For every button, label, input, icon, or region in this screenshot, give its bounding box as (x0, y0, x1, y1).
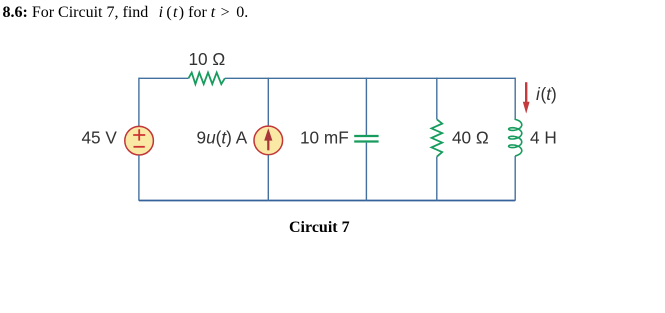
voltage source V1 45V (circle) (125, 126, 154, 155)
current direction arrow i(t) (red, downward) (525, 82, 527, 103)
wire: left vertical lower (voltage source to bottom corner) (138, 155, 140, 201)
minus sign of source (134, 146, 145, 148)
wire: capacitor branch lower (365, 143, 367, 201)
svg-text:10 mF: 10 mF (300, 128, 349, 148)
wire: 40 ohm branch upper (436, 78, 438, 120)
svg-text:Circuit 7: Circuit 7 (289, 219, 350, 236)
inductor L1 4 H (coil) (509, 119, 522, 155)
wire: right vertical upper (top corner to inductor) (514, 78, 516, 120)
problem statement title (3, 4, 249, 22)
wire: current source branch lower (267, 155, 269, 201)
wire: top segment from resistor to top-right corner (225, 77, 515, 79)
plus sign of source (133, 129, 145, 140)
svg-text:9u(t) A: 9u(t) A (197, 128, 248, 148)
current source arrow (upward) (267, 138, 269, 151)
svg-text:45 V: 45 V (82, 128, 118, 148)
capacitor C1 10 mF (two plates) (354, 136, 378, 142)
wire: right vertical lower (inductor to bottom corner) (514, 156, 516, 201)
wire: bottom horizontal (139, 200, 515, 202)
svg-text:4 H: 4 H (530, 128, 557, 148)
svg-text:10 Ω: 10 Ω (189, 49, 226, 69)
svg-text:40 Ω: 40 Ω (452, 128, 489, 148)
wire: capacitor branch upper (365, 78, 367, 135)
resistor 40 ohm (vertical zigzag) (432, 119, 443, 156)
resistor 10 ohm (horizontal zigzag) (189, 73, 225, 85)
current source I1 9u(t) A (circle) (254, 126, 283, 155)
svg-text:(t): (t) (541, 84, 557, 104)
wire: top-left segment from left corner to resistor R (139, 77, 189, 79)
wire: left vertical upper (corner to voltage source) (138, 78, 140, 127)
wire: 40 ohm branch lower (436, 157, 438, 201)
wire: current source branch upper (267, 78, 269, 126)
